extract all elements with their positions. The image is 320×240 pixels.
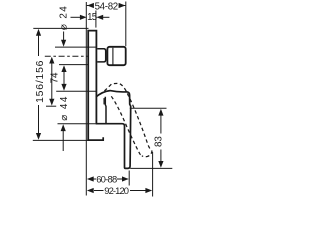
dim 156 stem upper [38,34,40,56]
dim 83 bottom line [130,167,172,169]
svg-text:⌀ 44: ⌀ 44 [59,95,70,121]
handle heel hidden edge [103,98,105,104]
dim phi44 bottom line [58,123,96,125]
svg-text:54-82: 54-82 [95,1,118,12]
dashed lever upper edge (open position) [104,83,152,156]
dim 54-82 right extension line [125,2,127,47]
dim phi24 arrow stem [63,32,65,42]
arrowhead phi44 down (offset stem) [49,99,54,106]
arrowhead phi44 up [61,124,66,131]
dim phi24 top line [55,46,96,48]
arrowhead 60-88 left [87,176,94,181]
arrowhead 60-88 right [122,176,129,181]
arrowhead 156 up [36,29,41,36]
dim 74 bottom line [56,90,96,92]
escutcheon plate (side view) [88,31,96,141]
svg-text:15: 15 [87,12,97,23]
arrowhead 54-82 left [87,3,94,8]
dim 92-120 right extension line [152,152,154,197]
dim 156 top extension line [33,27,88,29]
dim 83 stem upper [160,115,162,134]
arrowhead phi24 down [61,40,66,47]
wire wall plane extension line [85,2,87,196]
arrowhead 83 down [158,161,163,168]
dim 92-120 arrow tails [94,190,104,192]
arrowhead 15 right (points left) [96,15,103,20]
arrowhead 15 left (points right) [80,15,87,20]
dim 60-88 right extension line [128,171,130,186]
arrowhead 74 down [61,84,66,91]
dim phi44 lower stem [62,130,64,152]
handle lever outline (closed position) [96,91,131,169]
dim 60-88 arrow tails [94,178,97,180]
arrowhead phi24 up (offset stem) [49,57,54,64]
dim 74 stem [63,70,65,86]
dim 83 top line [130,107,167,109]
dashed lever lower edge (open position) [111,96,142,155]
handle lever back edge [104,97,107,123]
dim 15 left arrow tail [71,16,82,18]
arrowhead 156 down [36,133,41,140]
arrowhead 74 up [61,65,66,72]
arrowhead 54-82 right [119,3,126,8]
handle hub joint line [112,48,114,65]
svg-text:92-120: 92-120 [104,185,128,196]
dim phi44 top tick [46,105,56,107]
svg-text:⌀ 24: ⌀ 24 [58,5,69,30]
arrowhead 92-120 left [87,188,94,193]
svg-text:156/156: 156/156 [35,60,46,103]
handle hub [107,47,125,65]
dim 156 bottom extension line [33,139,89,141]
centerline spindle [45,55,89,57]
svg-text:83: 83 [154,136,165,147]
dim 156 stem lower [38,105,40,135]
dim 74 top line [59,64,89,66]
dim phi24 / phi44 shared stem [51,62,53,100]
svg-text:60-88: 60-88 [96,173,117,184]
dim 15 extension line [95,11,97,28]
dim 15 right arrow tail [103,16,110,18]
arrowhead 92-120 right [145,188,152,193]
plate bottom hook detail [87,137,103,140]
svg-text:74: 74 [49,72,60,83]
dim 83 stem lower [160,150,162,162]
arrowhead 83 up [158,109,163,116]
cartridge spindle [97,49,106,62]
dim 54-82 line stubs [87,5,94,7]
